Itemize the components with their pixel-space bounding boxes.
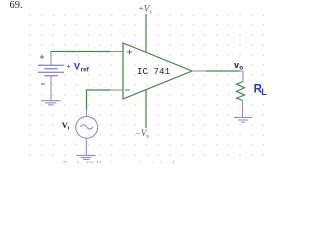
op-amp minus input mark	[125, 89, 130, 91]
resistor R_L zigzag	[237, 82, 245, 101]
wire resistor to ground	[242, 100, 244, 117]
wire battery top to + input	[51, 51, 110, 54]
label +Vref	[66, 62, 89, 74]
svg-text:ref: ref	[81, 66, 90, 73]
svg-text:L: L	[261, 87, 267, 97]
output wire	[206, 70, 240, 72]
ground under AC source	[76, 155, 95, 159]
positive supply wire	[145, 14, 147, 53]
svg-text:o: o	[239, 66, 243, 72]
wire AC source to - input	[87, 90, 111, 111]
label -V supply	[136, 128, 150, 140]
AC source V_i	[76, 110, 98, 155]
label +V supply	[139, 3, 153, 16]
ground under R_L	[234, 118, 252, 123]
negative supply wire	[145, 90, 147, 128]
output pin stub	[192, 70, 206, 72]
label V_i	[62, 121, 70, 131]
svg-text:IC 741: IC 741	[137, 66, 171, 77]
op-amp plus input mark	[127, 50, 132, 55]
ground under battery	[41, 101, 61, 105]
label R_L	[254, 84, 268, 98]
battery minus mark	[41, 83, 45, 85]
svg-text:+: +	[66, 62, 70, 71]
svg-text:69.: 69.	[10, 0, 23, 11]
label v_o	[234, 60, 243, 72]
svg-text:v: v	[234, 60, 239, 70]
battery V_ref	[38, 52, 64, 101]
node vo corner	[240, 71, 244, 82]
svg-text:For the 60-Hz sine-wave input: For the 60-Hz sine-wave input signal	[63, 160, 174, 164]
op-amp U1 triangle	[123, 43, 192, 99]
dot grid	[29, 14, 266, 156]
battery plus mark	[40, 55, 44, 59]
svg-text:−: −	[136, 128, 141, 138]
op-amp input pin stubs	[110, 52, 123, 91]
